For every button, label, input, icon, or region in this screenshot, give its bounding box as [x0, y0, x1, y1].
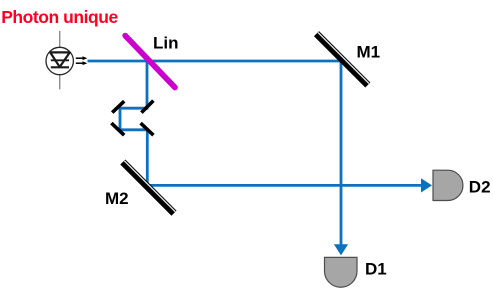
photon emission arrow upper [76, 56, 88, 60]
wire: main beam source to M1 [88, 60, 342, 63]
wire: beamsplitter down to delay line [146, 61, 149, 108]
photon source lead top [59, 31, 61, 47]
mirror M1 [317, 33, 370, 86]
svg-text:Photon unique: Photon unique [1, 7, 118, 27]
svg-text:D2: D2 [469, 178, 491, 197]
detector D2 [433, 170, 463, 200]
delay mirror top-left [112, 101, 124, 112]
photon emission arrow lower [76, 61, 88, 65]
photon source lead bottom [59, 69, 61, 89]
svg-text:Lin: Lin [153, 33, 179, 52]
wire: delay line left vertical [119, 107, 122, 131]
svg-text:M2: M2 [105, 189, 129, 208]
detector D1 [325, 257, 358, 287]
wire: delay line top horizontal [120, 107, 148, 110]
delay mirror top-right [141, 101, 153, 113]
svg-text:M1: M1 [357, 43, 381, 62]
mirror M2 [123, 161, 176, 213]
svg-text:D1: D1 [365, 260, 387, 279]
photon source circle [46, 47, 73, 74]
beamsplitter Lin [125, 36, 175, 88]
wire: delay line bottom horizontal [119, 128, 148, 131]
delay mirror bottom-right [141, 123, 154, 135]
wire: M1 down to detector D1 [340, 61, 343, 245]
wire: M2 to detector D2 [147, 184, 421, 187]
arrowhead into D2 [421, 178, 432, 192]
wire: delay line down to M2 [146, 128, 149, 185]
delay mirror bottom-left [111, 123, 124, 135]
arrowhead into D1 [334, 244, 348, 255]
photon source diode triangle [50, 52, 71, 67]
